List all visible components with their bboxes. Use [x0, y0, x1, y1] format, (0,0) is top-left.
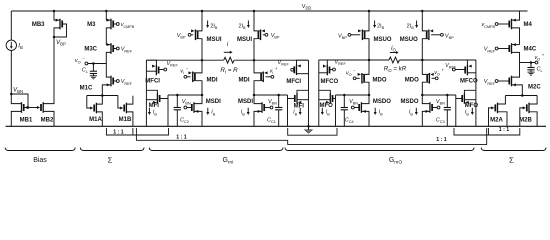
current iO arrow: [390, 45, 399, 54]
transistor MFCO right: [452, 60, 476, 126]
wire resistor bus GmO left: [319, 59, 389, 62]
current source IB: [6, 11, 16, 94]
current IB MFI left: [148, 108, 157, 116]
node VBN label MSDI-R: [268, 99, 277, 106]
transistor M3C: [106, 43, 119, 63]
label M4C: [524, 47, 537, 53]
ratio bracket 1:1 sigma-right: [454, 127, 520, 135]
wire sigma-left bus: [87, 94, 118, 97]
label MSUI left: [207, 37, 222, 43]
svg-text:MSUO: MSUO: [374, 37, 392, 43]
label M1B: [119, 117, 132, 123]
node IB label: [18, 43, 23, 51]
transistor MFO right: [456, 90, 476, 126]
transistor MFCI left: [146, 60, 166, 126]
svg-text:M2B: M2B: [519, 117, 532, 123]
transistor M1C: [102, 64, 119, 96]
svg-text:MSDI: MSDI: [206, 99, 221, 105]
brace GmI: [149, 148, 283, 151]
transistor M2B: [520, 96, 537, 127]
transistor MFI right: [288, 90, 309, 126]
node vO- label MDO: [346, 68, 356, 77]
current IB MSDO right: [409, 108, 418, 116]
label MFO right: [465, 103, 479, 109]
node VREF label MFCI-R: [278, 60, 290, 67]
node vI- label: [180, 66, 188, 75]
wire output bus GmO-left: [336, 94, 371, 97]
wire resistor bus left: [146, 59, 223, 62]
capacitor CC2: [174, 95, 181, 126]
svg-text:Bias: Bias: [33, 157, 47, 164]
ratio bracket 1:1 sigma-left: [106, 128, 168, 135]
transistor MDO right: [422, 60, 438, 95]
label MSUO left: [374, 37, 392, 43]
capacitor CL right: [527, 63, 534, 76]
svg-text:MB3: MB3: [32, 22, 45, 28]
transistor MB2: [37, 37, 54, 126]
node VREF label MFCO-R: [445, 63, 457, 70]
wire output bus GmI-left: [168, 94, 203, 97]
label MSDI right: [238, 99, 253, 105]
svg-text:MDI: MDI: [239, 78, 250, 84]
label MDO right: [405, 78, 419, 84]
node VREF label M3C: [121, 47, 133, 54]
current 2IB right-GmI: [238, 21, 249, 30]
wire MB1-MB2 gate line: [24, 107, 39, 109]
current IB MFO right: [465, 108, 474, 116]
label RI value: [220, 67, 238, 75]
transistor M4: [495, 11, 519, 45]
label MFCO left: [321, 79, 339, 85]
svg-text:1 : 1: 1 : 1: [436, 137, 446, 143]
svg-text:MFI: MFI: [294, 103, 305, 109]
ratio bracket GmI-GmO long: [136, 128, 486, 144]
label CC3: [436, 117, 445, 124]
node VBP label MSUI-L: [177, 33, 186, 40]
node VBP label: [56, 39, 66, 47]
transistor MSDI left: [184, 95, 202, 126]
label CL left: [82, 68, 88, 75]
svg-text:MSUI: MSUI: [207, 37, 222, 43]
label MSDI left: [206, 99, 221, 105]
svg-text:MSDO: MSDO: [401, 99, 419, 105]
brace GmO: [285, 148, 474, 151]
transistor MSDO left: [351, 95, 369, 126]
capacitor CC4: [341, 95, 348, 126]
svg-text:M3: M3: [87, 22, 96, 28]
svg-text:M1B: M1B: [119, 117, 132, 123]
svg-text:MB2: MB2: [41, 117, 54, 123]
wire resistor bus right: [234, 59, 308, 62]
ground symbol: [305, 125, 313, 133]
node vCMFB label M3: [121, 22, 135, 29]
svg-text:MSUI: MSUI: [237, 37, 252, 43]
label M3: [87, 22, 96, 28]
node vo+ wire: [520, 61, 538, 64]
transistor MFCI right: [291, 60, 309, 126]
transistor MDI right: [254, 60, 274, 95]
label MFCI right: [286, 79, 301, 85]
label MB1: [20, 117, 33, 123]
brace Sigma left: [80, 148, 144, 151]
label MDO left: [373, 78, 387, 84]
label CL right: [537, 67, 543, 74]
label M1C: [80, 85, 93, 91]
node vo- label: [75, 56, 85, 65]
svg-text:M1A: M1A: [89, 117, 102, 123]
label M2A: [490, 117, 503, 123]
transistor M2C: [495, 63, 522, 96]
label MSUO right: [400, 37, 418, 43]
transistor MDI left: [184, 60, 202, 95]
label CC4: [345, 117, 354, 124]
label MSDO right: [401, 99, 419, 105]
svg-text:MFO: MFO: [465, 103, 479, 109]
transistor MB3: [53, 10, 67, 39]
node VREF label M4C: [484, 47, 496, 54]
current 2IB left-GmO: [373, 21, 385, 30]
transistor M2A: [489, 96, 508, 127]
transistor MDO left: [353, 60, 369, 95]
label M4: [524, 22, 533, 28]
current 2IB left-GmI: [206, 21, 218, 30]
transistor MSUO left: [348, 10, 370, 60]
svg-text:MFCO: MFCO: [460, 79, 478, 85]
transistor MFCO left: [319, 60, 336, 126]
transistor MSDO right: [422, 95, 440, 126]
svg-text:MDO: MDO: [373, 78, 387, 84]
node vI+ label: [270, 66, 278, 75]
node vCMFB label M4: [481, 22, 495, 29]
svg-text:1 : 1: 1 : 1: [113, 129, 123, 135]
node VBP label MSUO-R: [445, 34, 454, 41]
resistor RO: [389, 57, 399, 63]
label GmI: [223, 157, 234, 166]
label MB2: [41, 117, 54, 123]
svg-text:MFCO: MFCO: [321, 79, 339, 85]
capacitor CC1: [275, 95, 282, 126]
svg-text:RO = kR: RO = kR: [384, 65, 407, 73]
wire output bus GmO-right: [421, 94, 456, 97]
transistor MSUI left: [188, 10, 203, 60]
label MDI right: [239, 78, 250, 84]
capacitor CL left: [90, 64, 97, 79]
transistor MFI left: [146, 90, 168, 126]
node VREF label MFCI-L: [167, 61, 179, 68]
svg-text:M1C: M1C: [80, 85, 93, 91]
current IB MFI right: [293, 108, 302, 116]
wire VBN branch: [10, 93, 29, 109]
node VBN label MSDO-L: [349, 99, 358, 106]
resistor RI: [224, 57, 234, 63]
svg-text:MSDI: MSDI: [238, 99, 253, 105]
label Sigma left: [108, 156, 113, 165]
svg-text:M4: M4: [524, 22, 533, 28]
current IB MSDI right: [241, 108, 250, 116]
label MFCI left: [145, 79, 160, 85]
wire VDD rail: [11, 10, 527, 12]
svg-text:MDO: MDO: [405, 78, 419, 84]
label M2C: [528, 85, 541, 91]
label Bias: [33, 157, 47, 164]
label MFCO right: [460, 79, 478, 85]
label CC2: [180, 117, 189, 124]
transistor MSDI right: [254, 95, 273, 126]
transistor MB1: [11, 94, 28, 126]
wire resistor bus GmO right: [399, 59, 476, 62]
ratio bracket center: [288, 128, 337, 135]
node VBP label MSUI-R: [271, 33, 280, 40]
label CC1: [267, 117, 276, 124]
current 2IB right-GmO: [407, 21, 418, 30]
svg-text:M2C: M2C: [528, 85, 541, 91]
transistor M1A: [87, 96, 103, 127]
label MSDO left: [373, 99, 391, 105]
wire VSS bottom rail: [6, 125, 547, 127]
svg-text:VDD: VDD: [302, 4, 312, 11]
svg-text:MFO: MFO: [320, 103, 334, 109]
svg-text:MFI: MFI: [149, 103, 160, 109]
svg-text:MFCI: MFCI: [286, 79, 301, 85]
svg-text:1 : 1: 1 : 1: [176, 134, 186, 140]
label M3C: [84, 47, 97, 53]
brace Sigma right: [481, 148, 546, 151]
current IB MFO left: [321, 108, 330, 116]
label MSUI right: [237, 37, 252, 43]
svg-text:RI = R: RI = R: [220, 67, 238, 75]
svg-text:MB1: MB1: [20, 117, 33, 123]
svg-text:M3C: M3C: [84, 47, 97, 53]
node VREF label M2C: [484, 79, 496, 86]
current iI arrow: [224, 41, 233, 54]
label RO value: [384, 65, 407, 73]
node VDD label: [302, 4, 312, 11]
current IB MSDI left: [206, 108, 215, 116]
svg-text:MSUO: MSUO: [400, 37, 418, 43]
node vO+ label MDO: [434, 67, 444, 76]
svg-text:MFCI: MFCI: [145, 79, 160, 85]
node VBP label MSUO-L: [338, 34, 347, 41]
node vo+ label: [535, 53, 545, 62]
node VBN label MSDI-L: [182, 99, 191, 106]
svg-text:M4C: M4C: [524, 47, 537, 53]
label M1A: [89, 117, 102, 123]
svg-text:MDI: MDI: [207, 78, 218, 84]
capacitor CC3: [444, 95, 451, 126]
label MFI left: [149, 103, 160, 109]
label MB3: [32, 22, 45, 28]
label M2B: [519, 117, 532, 123]
svg-text:1 : 1: 1 : 1: [499, 127, 509, 133]
svg-text:M2A: M2A: [490, 117, 503, 123]
label MFO left: [320, 103, 334, 109]
node VREF label M1C: [121, 79, 133, 86]
transistor M1B: [118, 96, 133, 127]
svg-text:Σ: Σ: [509, 156, 514, 165]
node VREF label MFCO-L: [335, 60, 347, 67]
svg-text:MSDO: MSDO: [373, 99, 391, 105]
svg-text:Σ: Σ: [108, 156, 113, 165]
label Sigma right: [509, 156, 514, 165]
brace Bias: [5, 148, 75, 151]
node VBN label: [13, 87, 23, 95]
transistor M3: [105, 10, 119, 45]
transistor MFO left: [319, 90, 336, 126]
wire output bus GmI-right: [253, 94, 288, 97]
transistor MSUI right: [253, 10, 268, 60]
label MDI left: [207, 78, 218, 84]
node VBN label MSDO-R: [436, 99, 445, 106]
transistor M4C: [495, 43, 519, 62]
current IB MSDO left: [374, 108, 383, 116]
label MFI right: [294, 103, 305, 109]
transistor MSUO right: [421, 10, 443, 60]
node vo- wire: [85, 62, 106, 65]
wire sigma-right bus: [505, 94, 537, 97]
label GmO: [389, 157, 403, 166]
